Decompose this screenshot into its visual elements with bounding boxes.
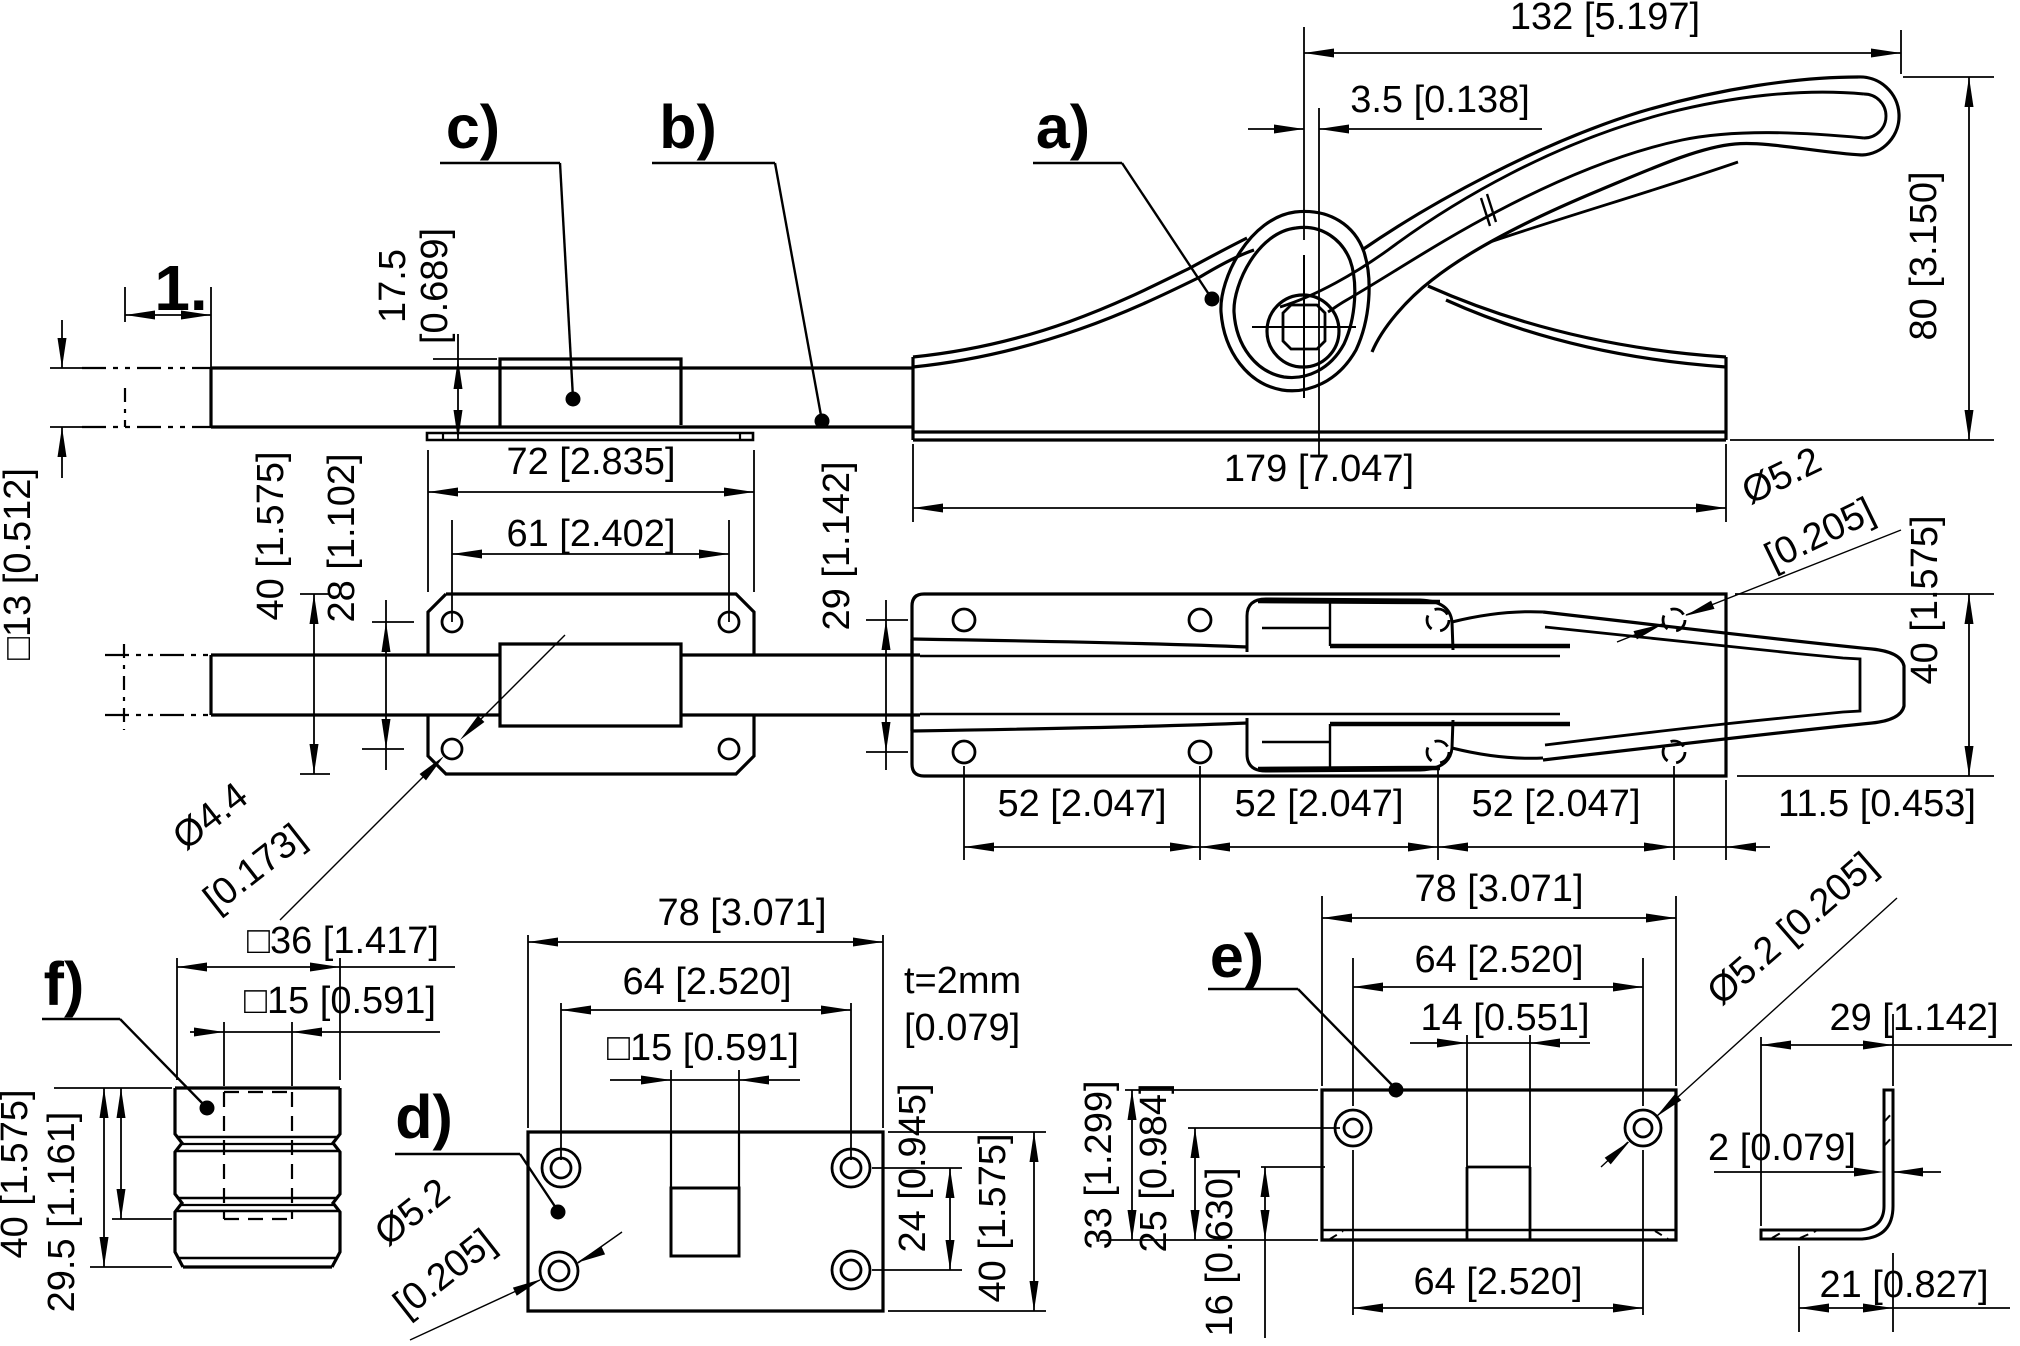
side view: rod break continuation (dash-dot) — [82, 368, 213, 427]
plan view: rod edges through strap — [920, 656, 1560, 714]
plan view: left plate hole top-right — [719, 612, 739, 632]
plan view: rod solid part — [211, 655, 500, 715]
plan view: strap outer edges — [912, 639, 1248, 731]
svg-text:78 [3.071]: 78 [3.071] — [657, 892, 826, 934]
dimension 13 [0.512] rod square — [0, 320, 92, 660]
dimension 3.5 [0.138] pivot offset — [1248, 79, 1542, 455]
plan view: pivot yoke lower — [1247, 718, 1570, 771]
dimension 25 [0.984] e hole height — [1133, 1083, 1340, 1252]
side view: draw hook lower curve — [1446, 300, 1726, 367]
plan view: hole top 1 — [953, 609, 975, 631]
svg-text:e): e) — [1210, 922, 1264, 990]
side view: pivot boss inner teardrop — [1234, 227, 1355, 377]
svg-text:179 [7.047]: 179 [7.047] — [1224, 448, 1414, 490]
note t=2mm [0.079] — [904, 960, 1021, 1049]
e view: center slot — [1467, 1167, 1530, 1240]
plan view: guide block c — [500, 644, 681, 726]
svg-text:29 [1.142]: 29 [1.142] — [816, 461, 858, 630]
plan view: rod between block and latch — [681, 655, 920, 715]
dimension 28 [1.102] left hole rows — [321, 453, 414, 770]
plan view: hole bottom 4 hidden — [1663, 741, 1685, 763]
plan view: tongue outer contour — [1543, 612, 1904, 760]
svg-text:28 [1.102]: 28 [1.102] — [321, 453, 363, 622]
f view: block outline — [175, 1088, 340, 1267]
svg-text:52 [2.047]: 52 [2.047] — [997, 783, 1166, 825]
d view: center channel — [671, 1132, 739, 1188]
dimension 16 [0.630] e slot height — [1199, 1167, 1325, 1338]
svg-text:64 [2.520]: 64 [2.520] — [1414, 939, 1583, 981]
e view: bend relief dashes — [1330, 1231, 1668, 1239]
svg-text:a): a) — [1036, 93, 1090, 161]
side view: latch arm riser edge — [911, 357, 914, 440]
svg-text:[0.689]: [0.689] — [414, 228, 456, 344]
svg-text:d): d) — [395, 1083, 453, 1151]
svg-text:40 [1.575]: 40 [1.575] — [972, 1133, 1014, 1302]
svg-text:78 [3.071]: 78 [3.071] — [1414, 868, 1583, 910]
side view: stamped arm lower edge — [913, 250, 1254, 367]
label e) — [1208, 922, 1404, 1098]
L bracket bend relief dashes — [1772, 1112, 1893, 1238]
plan view: hole bottom 2 — [1189, 741, 1211, 763]
svg-text:61 [2.402]: 61 [2.402] — [506, 513, 675, 555]
dimension square 15 [0.591] hole f — [190, 980, 440, 1086]
e view: ring hole left — [1335, 1110, 1371, 1146]
svg-text:11.5 [0.453]: 11.5 [0.453] — [1778, 783, 1976, 825]
dimension 80 [3.150] lever height — [1730, 77, 1994, 440]
d view: square hole — [671, 1188, 739, 1256]
svg-text:b): b) — [659, 93, 717, 161]
dimension 17.5 [0.689] block height — [372, 228, 497, 440]
svg-text:132 [5.197]: 132 [5.197] — [1510, 0, 1700, 38]
side view: handle break mark — [1481, 194, 1496, 226]
dimension 21 [0.827] bracket — [1799, 1246, 2010, 1332]
plan view: pivot yoke upper — [1247, 599, 1570, 652]
d view: ring hole top-right — [832, 1149, 870, 1187]
svg-text:□15 [0.591]: □15 [0.591] — [244, 980, 436, 1022]
side view: pivot centerlines — [1252, 255, 1356, 398]
d view: plate outline — [528, 1132, 883, 1311]
side view: stamped arm upper edge — [913, 238, 1247, 357]
label b) arm — [652, 93, 830, 429]
svg-text:25 [0.984]: 25 [0.984] — [1133, 1083, 1175, 1252]
L bracket side view outline — [1761, 1090, 1893, 1239]
label a) lever — [1033, 93, 1220, 307]
svg-text:16 [0.630]: 16 [0.630] — [1199, 1167, 1241, 1336]
plan view: right latch plate outline — [912, 594, 1726, 776]
side view: draw hook upper curve — [1428, 286, 1726, 357]
plan view: rod break continuation — [105, 644, 213, 730]
dimension diameter 5.2 [0.205] latch holes — [1617, 439, 1901, 642]
svg-text:64 [2.520]: 64 [2.520] — [622, 961, 791, 1003]
plan view: left plate hole top-left — [442, 612, 462, 632]
dimension diameter 5.2 [0.205] e holes — [1601, 844, 1897, 1167]
side view: inner lever edge — [1490, 162, 1738, 242]
plan view: hole bottom 1 — [953, 741, 975, 763]
side view: lever slot inner bottom edge — [1328, 133, 1864, 312]
dimension 29 [1.142] bracket leg — [1761, 997, 2012, 1226]
svg-text:72 [2.835]: 72 [2.835] — [506, 441, 675, 483]
dimension 72 [2.835] plate width — [428, 441, 754, 592]
svg-text:33 [1.299]: 33 [1.299] — [1078, 1080, 1120, 1249]
dimension 64 [2.520] d holes — [561, 961, 851, 1160]
side view: lever handle tip capsule outer — [1858, 77, 1899, 155]
side view: lever handle outer top edge — [1362, 77, 1858, 250]
plan view: hole top 4 hidden — [1663, 609, 1685, 631]
d view: ring hole top-left — [542, 1149, 580, 1187]
svg-text:29.5 [1.161]: 29.5 [1.161] — [41, 1112, 83, 1313]
side view: base plate (edge-on) — [913, 432, 1726, 440]
label 1. (rod adjustment) — [125, 252, 211, 368]
dimension 78 [3.071] d plate — [528, 892, 883, 1128]
side view: threaded rod (bar), solid part — [211, 368, 913, 427]
side view: lever slot inner top edge — [1280, 92, 1864, 307]
side view: square hole in lever — [1283, 305, 1325, 349]
dimension diameter 4.4 [0.173] rod hole — [165, 635, 565, 921]
dimension square 15 [0.591] d hole — [607, 1027, 800, 1132]
side view: mounting flange under guide block — [427, 433, 753, 440]
side view: lever slot inner end radius — [1864, 94, 1886, 138]
svg-text:52 [2.047]: 52 [2.047] — [1234, 783, 1403, 825]
svg-text:□13 [0.512]: □13 [0.512] — [0, 468, 39, 660]
e view: plate outline — [1322, 1090, 1676, 1240]
dimension 33 [1.299] e height — [1078, 1080, 1318, 1249]
plan view: hole top 2 — [1189, 609, 1211, 631]
dimension 40 [1.575] left plate width — [250, 451, 330, 774]
side view: lever handle outer bottom edge — [1372, 144, 1862, 352]
svg-text:40 [1.575]: 40 [1.575] — [0, 1089, 36, 1258]
dimension square 36 [1.417] block size — [177, 920, 455, 1080]
dimension 132 [5.197] lever length — [1304, 0, 1901, 240]
side view: draw hook end edge — [1724, 357, 1727, 440]
svg-text:80 [3.150]: 80 [3.150] — [1903, 171, 1945, 340]
svg-text:21 [0.827]: 21 [0.827] — [1819, 1264, 1988, 1306]
f view: hidden square hole — [224, 1092, 292, 1219]
f view: groove lines — [177, 1137, 338, 1258]
d view: ring hole bottom-right — [832, 1251, 870, 1289]
dimension 78 [3.071] e plate — [1322, 868, 1676, 1086]
side view: lever boss circle around square hole — [1267, 295, 1339, 367]
svg-text:c): c) — [446, 93, 500, 161]
svg-text:2 [0.079]: 2 [0.079] — [1708, 1127, 1856, 1169]
side view: pivot boss outer teardrop — [1221, 211, 1369, 390]
svg-text:52 [2.047]: 52 [2.047] — [1471, 783, 1640, 825]
svg-text:14 [0.551]: 14 [0.551] — [1420, 997, 1589, 1039]
svg-text:29 [1.142]: 29 [1.142] — [1829, 997, 1998, 1039]
dimension 40 [1.575] d plate height — [888, 1132, 1046, 1311]
plan view: tongue inner contour — [1545, 627, 1860, 745]
plan view: left plate hole bottom-left — [442, 739, 462, 759]
dimension 2 [0.079] thickness — [1708, 1127, 1941, 1177]
dimension 40 [1.575] right plate width — [1735, 515, 1994, 776]
svg-text:t=2mm: t=2mm — [904, 960, 1021, 1002]
svg-text:40 [1.575]: 40 [1.575] — [250, 451, 292, 620]
dimension 64 [2.520] e holes top — [1353, 939, 1643, 1106]
dimension 24 [0.945] d hole rows — [872, 1083, 962, 1270]
svg-text:□36 [1.417]: □36 [1.417] — [247, 920, 439, 962]
plan view: left mounting plate outline — [428, 594, 754, 774]
dimension 64 [2.520] e holes bottom — [1353, 1150, 1643, 1315]
plan view: left plate hole bottom-right — [719, 739, 739, 759]
label f) — [42, 950, 215, 1116]
e view: bottom lip line — [1322, 1229, 1676, 1232]
plan view: hole top 3 hidden — [1427, 609, 1449, 631]
svg-text:3.5 [0.138]: 3.5 [0.138] — [1350, 79, 1530, 121]
side view: guide block c — [500, 359, 681, 427]
svg-text:[0.079]: [0.079] — [904, 1007, 1020, 1049]
svg-text:40 [1.575]: 40 [1.575] — [1904, 515, 1946, 684]
label d) — [395, 1083, 566, 1220]
dimension chain 52 [2.047] x3 and 11.5 [0.453] — [964, 766, 1976, 860]
dimension 179 [7.047] base plate length — [913, 444, 1726, 522]
svg-text:64 [2.520]: 64 [2.520] — [1413, 1261, 1582, 1303]
dimension 61 [2.402] hole spacing — [452, 513, 729, 622]
dimension 29 [1.142] right plate hole rows — [816, 461, 908, 770]
svg-text:□15 [0.591]: □15 [0.591] — [607, 1027, 799, 1069]
dimension 29.5 [1.161] f — [41, 1088, 172, 1312]
d view: ring hole bottom-left — [540, 1252, 578, 1290]
plan view: hole bottom 3 hidden — [1427, 741, 1449, 763]
dimension 40 [1.575] f height — [0, 1088, 172, 1267]
dimension diameter 5.2 [0.205] d holes — [367, 1171, 622, 1340]
label c) guide block — [440, 93, 581, 407]
dimension 14 [0.551] e slot — [1410, 997, 1590, 1167]
svg-text:f): f) — [44, 950, 85, 1018]
svg-text:17.5: 17.5 — [372, 249, 414, 323]
e view: ring hole right — [1625, 1110, 1661, 1146]
